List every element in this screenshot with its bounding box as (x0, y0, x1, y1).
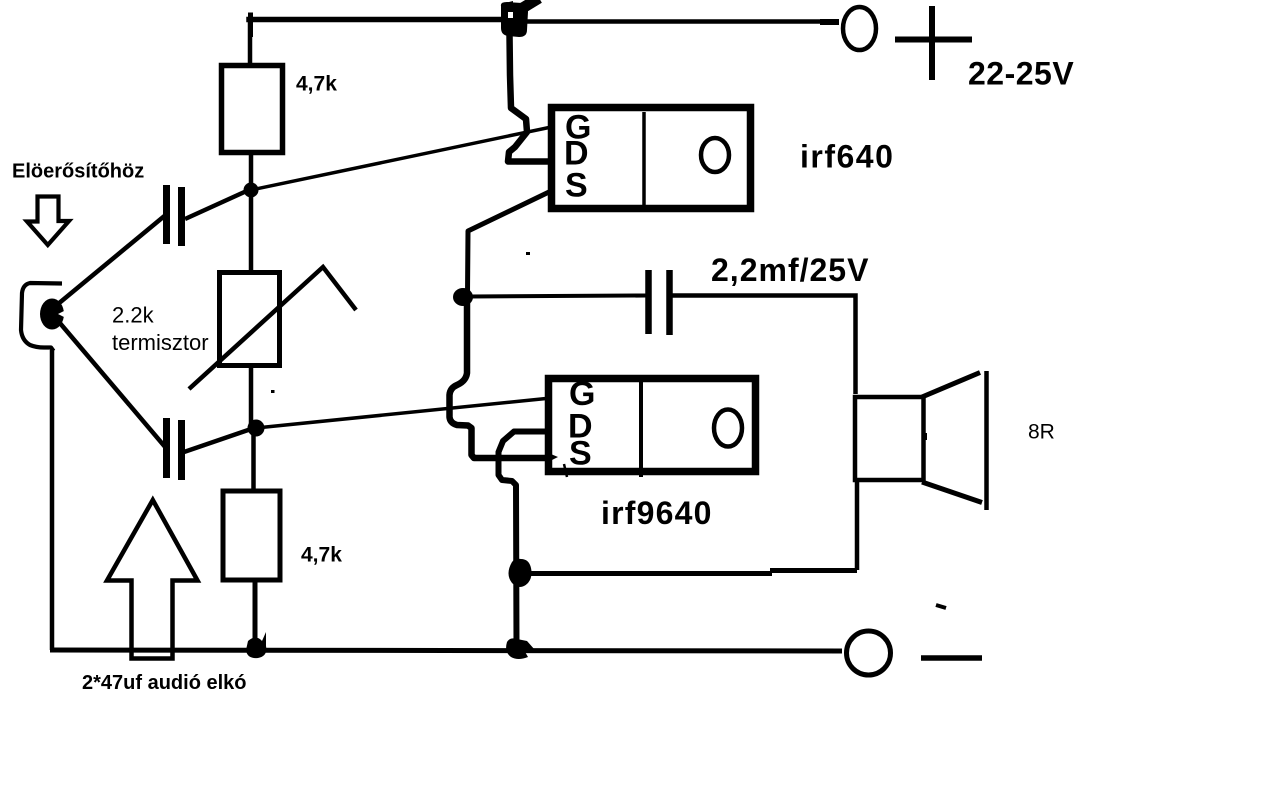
wire capacitor C3 to speaker top corner (672, 296, 856, 395)
resistor R3 4,7k bottom (223, 491, 280, 580)
wire supply drop to irf640 drain with detour (508, 34, 548, 162)
svg-text:Elöerősítőhöz: Elöerősítőhöz (12, 161, 144, 183)
wire junction A to thermistor top (249, 190, 254, 271)
capacitor C1 upper input cap (167, 185, 182, 246)
plus symbol (895, 6, 972, 80)
wire bottom rail (50, 650, 842, 651)
svg-text:4,7k: 4,7k (301, 544, 342, 567)
speaker LS1 (855, 371, 987, 510)
wire G lead of irf9640 (thin diagonal from junction B) (256, 398, 551, 428)
thermistor diagonal arrow (189, 267, 356, 389)
speck dot near source wire (526, 252, 530, 255)
node junction D (output blob) (509, 559, 532, 587)
wire left rail vertical (50, 350, 55, 650)
wire R3 bottom lead (253, 580, 258, 644)
node bottom junction blob under R3 (246, 632, 266, 658)
input connector C-shape (21, 283, 62, 351)
wire diagonal tail from top blob (516, 0, 539, 12)
node junction C (sources join) (453, 288, 473, 306)
svg-text:S: S (565, 167, 588, 205)
capacitor C3 2,2mf/25V (649, 270, 670, 335)
speck dash above minus (936, 605, 946, 608)
wire irf9640 drain to bottom rail (499, 432, 549, 649)
wire output to speaker bottom (518, 571, 772, 576)
wire junction C to capacitor C3 (470, 296, 646, 297)
speck dot right of thermistor (271, 390, 275, 393)
thermistor RT1 body (220, 273, 280, 366)
node bottom rail junction blob (506, 638, 535, 659)
svg-text:irf9640: irf9640 (601, 495, 713, 531)
resistor R1 4,7k top (222, 66, 283, 153)
wire junction C to irf9640 source with hop (450, 297, 549, 458)
svg-text:4,7k: 4,7k (296, 73, 337, 96)
wire top rail left segment (249, 17, 516, 23)
irf640 transistor U1 (552, 108, 751, 209)
node junction blob at top supply (501, 1, 528, 37)
terminal top positive circle (843, 7, 876, 50)
speck tick below irf9640 S pin (564, 464, 567, 477)
svg-text:2,2mf/25V: 2,2mf/25V (711, 252, 869, 288)
wire junction B to R3 top (251, 428, 256, 491)
wire lower cap to junction B (diagonal) (184, 428, 254, 452)
capacitor C2 lower input cap (167, 418, 182, 480)
node junction A between R1 and thermistor (244, 183, 259, 198)
svg-text:termisztor: termisztor (112, 330, 209, 355)
wire upper cap to junction A (diagonal) (185, 189, 251, 219)
node small blob at irf9640 S pin (546, 452, 558, 463)
svg-text:2.2k: 2.2k (112, 303, 155, 328)
arrow small hollow down arrow (27, 197, 69, 246)
svg-text:irf640: irf640 (800, 139, 894, 175)
wire S lead of irf640 diagonal (468, 192, 550, 295)
svg-text:S: S (569, 435, 592, 473)
arrow big hollow up arrow (107, 500, 198, 659)
node input terminal dot (40, 299, 64, 330)
wire R1 bottom lead (249, 155, 254, 186)
wire thermistor bottom to junction B (249, 366, 254, 424)
irf9640 transistor U2 (549, 375, 756, 477)
wire R1 top lead (248, 19, 253, 63)
wire top rail right segment (516, 19, 838, 24)
wire input dot to upper cap (diagonal) (58, 216, 165, 305)
wire thicker end near plus terminal (820, 19, 839, 25)
node junction B (248, 420, 265, 437)
wire G lead of irf640 (thin diagonal from junction A) (251, 128, 549, 191)
minus symbol (921, 655, 982, 661)
svg-text:8R: 8R (1028, 421, 1055, 444)
svg-text:2*47uf audió elkó: 2*47uf audió elkó (82, 672, 247, 694)
wire input dot to lower cap (diagonal) (59, 322, 166, 448)
svg-text:22-25V: 22-25V (968, 56, 1074, 92)
terminal bottom negative circle (847, 631, 891, 675)
